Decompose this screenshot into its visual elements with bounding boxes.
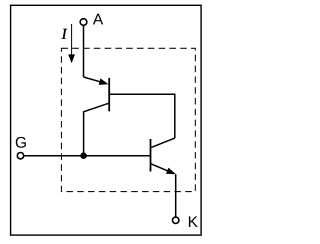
- wire Q2 emitter to K: [175, 174, 177, 217]
- wire A to Q1 emitter: [83, 26, 85, 77]
- current arrow I: [71, 24, 73, 56]
- label A: [93, 14, 103, 25]
- transistor Q2 (NPN) base bar: [150, 139, 152, 172]
- wire Q1 base to Q2 collector: [109, 94, 175, 138]
- transistor Q1 (PNP) collector: [84, 103, 109, 155]
- transistor Q2 (NPN) emitter: [151, 164, 169, 172]
- dashed box (equivalent-circuit boundary): [61, 48, 195, 191]
- terminal A: [80, 19, 87, 26]
- label I: [62, 29, 68, 39]
- node junction dot: [80, 152, 87, 159]
- wire G to Q2 base: [24, 155, 150, 157]
- label G: [16, 137, 26, 148]
- label K: [189, 216, 198, 227]
- border frame: [11, 5, 202, 235]
- terminal K: [173, 217, 179, 223]
- transistor Q1 (PNP) base bar: [108, 78, 110, 111]
- transistor Q2 (NPN) collector: [151, 138, 175, 147]
- terminal G: [17, 153, 23, 159]
- transistor Q1 (PNP) emitter: [84, 77, 106, 83]
